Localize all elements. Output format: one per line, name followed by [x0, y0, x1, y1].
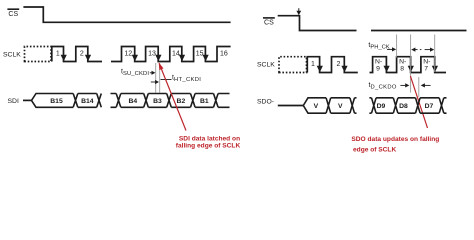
- svg-text:N-: N-: [399, 58, 406, 65]
- svg-text:7: 7: [424, 66, 428, 73]
- arrow tPH_CK: [387, 47, 396, 51]
- svg-text:B15: B15: [50, 98, 63, 105]
- red note text (right): [351, 136, 439, 154]
- wire SCLK pulses 1-2 (left): [52, 47, 102, 62]
- svg-text:tPH_CK: tPH_CK: [368, 42, 389, 51]
- svg-text:B4: B4: [128, 98, 137, 105]
- svg-text:tD_CKDO: tD_CKDO: [369, 82, 397, 91]
- svg-text:tSU_CKDI: tSU_CKDI: [121, 69, 149, 78]
- arrow CS falling edge marker: [296, 8, 301, 15]
- svg-text:SDO data updates on falling: SDO data updates on falling: [351, 136, 439, 143]
- svg-text:D8: D8: [399, 103, 408, 110]
- node CS label (right): [263, 18, 275, 27]
- clock numbers (left): [56, 51, 228, 58]
- wire SDI lead: [23, 99, 32, 101]
- svg-text:2: 2: [337, 61, 341, 68]
- SDO bit labels: [314, 103, 434, 110]
- svg-text:B3: B3: [153, 98, 162, 105]
- svg-text:SDI: SDI: [8, 98, 19, 105]
- svg-text:1: 1: [56, 51, 60, 58]
- svg-text:tHT_CKDI: tHT_CKDI: [172, 74, 201, 83]
- svg-text:16: 16: [220, 51, 228, 58]
- svg-text:9: 9: [376, 66, 380, 73]
- node CS label (left): [7, 9, 19, 18]
- svg-text:N-: N-: [423, 58, 430, 65]
- red note text (left): [176, 135, 241, 149]
- wire SCLK pulses 1-2 (right): [307, 57, 358, 73]
- node data transition ref line: [418, 77, 420, 97]
- svg-text:2: 2: [80, 51, 84, 58]
- SDI bus cells B4-B1 after break: [111, 94, 230, 108]
- wire SDO lead: [278, 105, 304, 107]
- svg-text:V: V: [314, 103, 319, 110]
- arrow tD_CKDO left: [421, 83, 431, 87]
- wire CS waveform (left): [23, 7, 230, 22]
- wire CS waveform (right): [278, 16, 357, 31]
- svg-text:B2: B2: [177, 98, 186, 105]
- svg-text:N-: N-: [375, 58, 382, 65]
- node timing ref line L2 (N-8 fall): [410, 35, 412, 93]
- arrow tD_CKDO right: [400, 83, 409, 87]
- wire CS low after break (right): [371, 30, 467, 32]
- clock numbers (right): [311, 61, 341, 68]
- node timing ref line L1 (N-8 rise): [396, 35, 398, 58]
- svg-text:B1: B1: [200, 98, 209, 105]
- svg-text:D9: D9: [377, 103, 386, 110]
- arrow tSU_CKDI: [150, 71, 156, 75]
- node timing ref line A: [155, 63, 157, 93]
- svg-text:falling edge of SCLK: falling edge of SCLK: [176, 143, 241, 150]
- wire SCLK dotted leader box (right): [279, 57, 307, 73]
- node timing ref line B: [159, 63, 161, 93]
- svg-text:SCLK: SCLK: [257, 62, 275, 69]
- svg-text:CS: CS: [8, 11, 18, 18]
- svg-text:13: 13: [148, 51, 156, 58]
- clock edge arrows (left): [61, 55, 209, 62]
- svg-text:B14: B14: [81, 98, 94, 105]
- arrow clock period double arrow: [411, 48, 434, 52]
- SDI bus cells B15 B14: [32, 94, 102, 108]
- arrow tHT_CKDI: [151, 80, 172, 85]
- node timing ref line L3 (N-7 fall): [434, 35, 436, 73]
- svg-text:1: 1: [311, 61, 315, 68]
- SDI bit labels: [50, 98, 209, 105]
- svg-text:SDO-: SDO-: [257, 99, 274, 106]
- SDO bus cells D9 D8 D7 after break: [369, 98, 446, 113]
- svg-text:D7: D7: [425, 103, 434, 110]
- svg-text:SDI data latched on: SDI data latched on: [179, 135, 240, 142]
- svg-text:edge of SCLK: edge of SCLK: [353, 147, 396, 154]
- svg-text:14: 14: [172, 51, 180, 58]
- wire SCLK pulses N-9..N-7 (right): [370, 57, 447, 73]
- svg-text:8: 8: [400, 66, 404, 73]
- clock edge arrows (right): [317, 66, 438, 73]
- SDO bus cells V V: [303, 98, 356, 113]
- svg-text:SCLK: SCLK: [3, 51, 21, 58]
- svg-text:V: V: [338, 103, 343, 110]
- svg-text:15: 15: [196, 51, 204, 58]
- wire SCLK pulses 12-16 (left): [111, 47, 231, 62]
- wire SCLK dotted leader box (left): [25, 47, 52, 62]
- red callout arrow (right): [410, 76, 427, 128]
- red callout arrow (left): [159, 62, 186, 130]
- svg-text:CS: CS: [264, 20, 274, 27]
- svg-text:12: 12: [124, 51, 132, 58]
